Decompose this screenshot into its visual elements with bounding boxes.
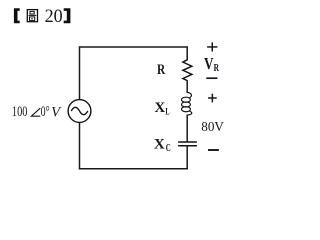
title bracket 【 xyxy=(14,8,20,23)
title glyph 圖 xyxy=(27,10,37,22)
minus sign upper (VR) xyxy=(206,77,217,79)
svg-text:X: X xyxy=(154,137,165,153)
svg-text:0°: 0° xyxy=(41,104,50,120)
title bracket 】 xyxy=(64,8,71,23)
wire left upper xyxy=(79,46,81,99)
minus sign lower (80V) xyxy=(208,149,219,151)
wire right: resistor to inductor xyxy=(186,80,188,93)
svg-text:R: R xyxy=(157,62,165,78)
svg-text:R: R xyxy=(214,63,220,74)
wire left lower xyxy=(79,122,81,169)
capacitor XC plate top xyxy=(178,141,197,143)
wire top xyxy=(79,46,188,48)
svg-text:L: L xyxy=(165,107,169,117)
svg-text:C: C xyxy=(166,143,171,154)
plus sign upper (VR) xyxy=(207,42,217,51)
svg-text:V: V xyxy=(204,54,214,73)
svg-text:100: 100 xyxy=(12,104,28,120)
plus sign lower (80V) xyxy=(208,94,217,103)
AC source V1 xyxy=(68,100,91,123)
capacitor XC plate bottom xyxy=(178,145,197,147)
svg-text:X: X xyxy=(155,100,166,116)
svg-text:80V: 80V xyxy=(201,120,224,135)
wire bottom xyxy=(79,168,188,170)
svg-text:20: 20 xyxy=(45,6,63,27)
wire right: top to resistor xyxy=(186,46,188,60)
angle symbol ∠ xyxy=(31,108,40,116)
wire right: inductor to capacitor xyxy=(186,115,188,142)
inductor XL xyxy=(182,93,192,115)
wire right: capacitor to bottom xyxy=(186,146,188,169)
resistor R xyxy=(183,60,192,81)
